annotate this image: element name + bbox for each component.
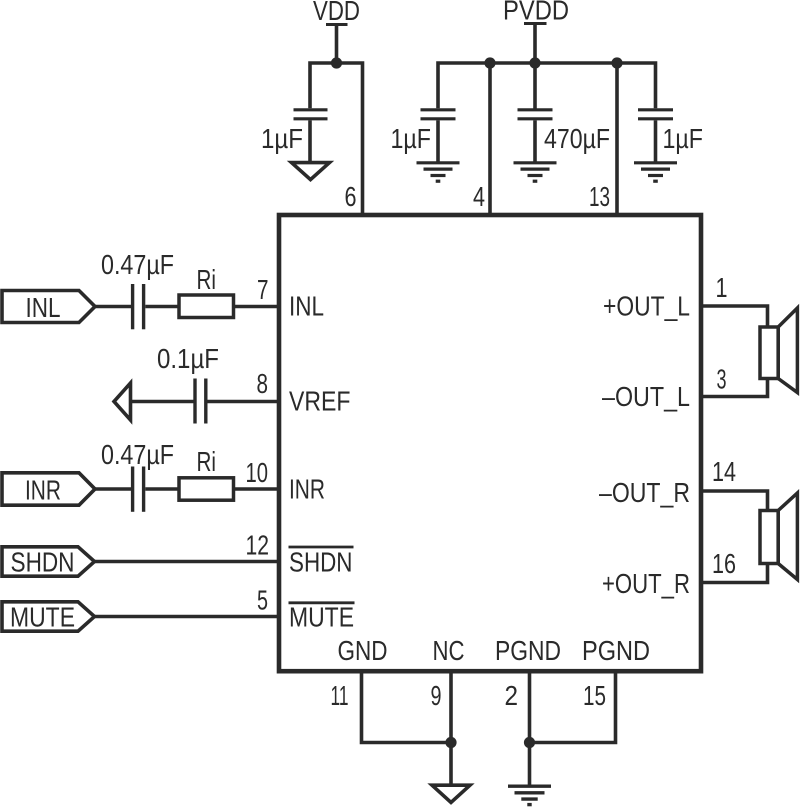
svg-text:VREF: VREF: [289, 386, 351, 417]
pin number 14: [712, 456, 736, 487]
svg-text:+OUT_R: +OUT_R: [602, 568, 690, 599]
capacitor C1 1µF VDD bypass: [294, 110, 328, 163]
ground earth under C2: [417, 163, 460, 181]
node MUTE input tag: [2, 602, 95, 631]
svg-text:470µF: 470µF: [544, 123, 610, 154]
pin number 3: [717, 364, 727, 395]
pin label MUTE with overline: [289, 602, 354, 633]
svg-text:0.47µF: 0.47µF: [101, 249, 174, 280]
pin number 1: [716, 272, 728, 303]
svg-text:14: 14: [712, 456, 736, 487]
node VDD label: [313, 0, 360, 26]
node junction pin4: [484, 57, 495, 68]
pin label VREF: [289, 386, 351, 417]
node junction GND/NC: [445, 737, 456, 748]
node INL input tag: [2, 291, 95, 323]
node junction PVDD feed: [529, 57, 540, 68]
svg-text:SHDN: SHDN: [289, 547, 353, 578]
pin label -OUT_R: [599, 477, 690, 508]
value label C4 1µF: [663, 123, 704, 154]
resistor R1 Ri INL: [179, 295, 234, 318]
wire VDD lead: [335, 26, 339, 63]
svg-text:GND: GND: [338, 635, 388, 666]
svg-text:12: 12: [246, 530, 270, 561]
wire INR tag to cap: [95, 487, 131, 491]
wire MUTE tag to pin 5: [95, 615, 280, 619]
svg-text:7: 7: [257, 274, 269, 305]
svg-text:INR: INR: [25, 475, 61, 506]
pin number 7: [257, 274, 269, 305]
pin number 9: [431, 680, 442, 711]
svg-text:1µF: 1µF: [391, 123, 432, 154]
pin label +OUT_R: [602, 568, 690, 599]
ground earth bottom: [508, 786, 551, 804]
pin label INL: [289, 291, 324, 322]
value label C2 1µF: [391, 123, 432, 154]
pin number 10: [246, 457, 269, 488]
capacitor C4 1µF PVDD right: [638, 110, 673, 162]
svg-text:Ri: Ri: [197, 446, 217, 477]
wire PVDD rail: [438, 63, 656, 108]
wire PVDD lead: [533, 25, 537, 63]
wire VREF triangle to cap: [132, 400, 194, 404]
wire cap to resistor: [145, 305, 179, 309]
wire VDD rail to pin 6: [310, 63, 363, 215]
capacitor C3 470µF: [518, 63, 553, 162]
wire GND pin 11 stub: [362, 673, 452, 743]
ground signal triangle under C1: [292, 163, 330, 180]
svg-text:INL: INL: [289, 291, 324, 322]
wire cap to pin 8: [208, 400, 280, 404]
wire pin 4 drop: [488, 63, 492, 215]
value label C3 470µF: [544, 123, 610, 154]
capacitor C7 0.47µF INR: [133, 467, 144, 512]
node junction PGND: [524, 737, 535, 748]
svg-text:10: 10: [246, 457, 269, 488]
wire SHDN tag to pin 12: [95, 560, 280, 564]
wire pin 16 to speaker: [701, 564, 768, 583]
PVDD rail bar: [524, 22, 547, 25]
pin label GND: [338, 635, 388, 666]
op-amp U1 amplifier IC body: [279, 215, 701, 671]
svg-text:5: 5: [257, 585, 268, 616]
pin number 16: [712, 548, 736, 579]
pin label PGND (pin15): [582, 635, 650, 666]
svg-text:15: 15: [583, 680, 606, 711]
svg-text:1µF: 1µF: [663, 123, 704, 154]
svg-text:1µF: 1µF: [261, 123, 303, 154]
wire pin 3 to speaker: [701, 379, 768, 397]
wire NC pin 9 drop: [449, 673, 453, 785]
svg-text:NC: NC: [433, 635, 465, 666]
node PVDD label: [503, 0, 569, 26]
wire PGND pin 2 drop: [528, 673, 532, 785]
node SHDN input tag: [2, 547, 95, 576]
svg-text:PGND: PGND: [582, 635, 650, 666]
speaker SPK2 right channel: [760, 493, 797, 580]
wire cap to resistor: [145, 487, 179, 491]
pin number 5: [257, 585, 268, 616]
ground signal triangle bottom: [432, 785, 470, 802]
capacitor C6 0.1µF VREF: [195, 379, 206, 424]
ground earth under C4: [634, 163, 677, 181]
svg-text:13: 13: [589, 181, 610, 212]
value label C6 0.1µF: [157, 343, 219, 374]
svg-text:MUTE: MUTE: [10, 602, 75, 633]
ground reference triangle VREF: [114, 383, 131, 420]
svg-text:VDD: VDD: [313, 0, 360, 26]
svg-text:INL: INL: [26, 292, 61, 323]
svg-text:6: 6: [345, 181, 357, 212]
pin number 8: [257, 368, 269, 399]
svg-text:1: 1: [716, 272, 728, 303]
value label C5 0.47µF: [101, 249, 174, 280]
svg-text:PGND: PGND: [495, 635, 561, 666]
svg-text:2: 2: [505, 680, 519, 711]
svg-text:11: 11: [331, 680, 349, 711]
pin number 2: [505, 680, 519, 711]
capacitor C2 1µF PVDD left: [421, 110, 456, 162]
svg-text:Ri: Ri: [197, 264, 217, 295]
svg-text:MUTE: MUTE: [289, 602, 354, 633]
pin number 11: [331, 680, 349, 711]
svg-text:PVDD: PVDD: [503, 0, 569, 26]
VDD rail bar: [326, 23, 348, 26]
svg-text:4: 4: [473, 181, 485, 212]
svg-text:9: 9: [431, 680, 442, 711]
wire resistor to pin 10: [234, 487, 280, 491]
pin label PGND (pin2): [495, 635, 561, 666]
node INR input tag: [2, 473, 95, 505]
wire pin 13 drop: [615, 63, 619, 215]
pin number 15: [583, 680, 606, 711]
pin label INR: [289, 474, 325, 505]
svg-text:3: 3: [717, 364, 727, 395]
svg-text:16: 16: [712, 548, 736, 579]
svg-text:+OUT_L: +OUT_L: [603, 291, 690, 322]
wire pin 1 to speaker: [701, 306, 768, 327]
wire INL tag to cap: [95, 305, 131, 309]
svg-text:INR: INR: [289, 474, 325, 505]
speaker SPK1 left channel: [760, 308, 797, 393]
svg-text:0.47µF: 0.47µF: [101, 439, 174, 470]
pin label -OUT_L: [602, 381, 690, 412]
pin label SHDN with overline: [289, 547, 353, 578]
svg-text:SHDN: SHDN: [11, 547, 75, 578]
pin label +OUT_L: [603, 291, 690, 322]
resistor R2 Ri INR: [179, 478, 234, 500]
svg-text:8: 8: [257, 368, 269, 399]
pin number 6: [345, 181, 357, 212]
node VDD junction: [331, 57, 342, 68]
node junction pin13: [611, 57, 622, 68]
value label C1 1µF: [261, 123, 303, 154]
pin number 4: [473, 181, 485, 212]
svg-text:–OUT_R: –OUT_R: [599, 477, 690, 508]
pin number 13: [589, 181, 610, 212]
wire pin 14 to speaker: [701, 491, 768, 511]
value label C7 0.47µF: [101, 439, 174, 470]
wire resistor to pin 7: [234, 305, 280, 309]
svg-text:–OUT_L: –OUT_L: [602, 381, 690, 412]
pin number 12: [246, 530, 270, 561]
capacitor C5 0.47µF INL: [133, 284, 144, 329]
wire PGND pin 15 stub: [530, 673, 616, 743]
pin label NC: [433, 635, 465, 666]
ground earth under C3: [514, 163, 557, 181]
svg-text:0.1µF: 0.1µF: [157, 343, 219, 374]
